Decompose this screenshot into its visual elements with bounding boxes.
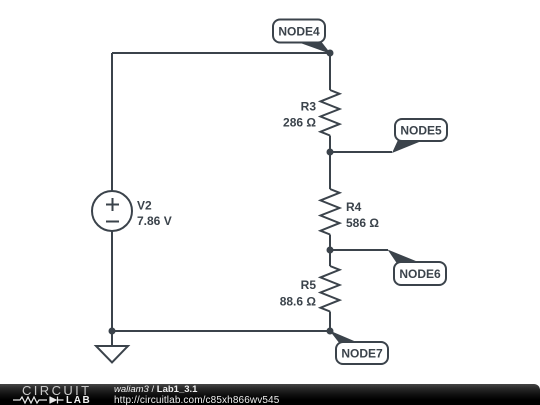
junction dot node NODE5 — [327, 149, 334, 156]
wire bottom from ground node to NODE7 — [112, 330, 330, 332]
svg-text:7.86 V: 7.86 V — [137, 214, 172, 228]
wire stub from NODE5 junction to NODE5 label — [330, 151, 392, 153]
svg-text:NODE6: NODE6 — [399, 267, 441, 281]
junction dot node NODE6 — [327, 247, 334, 254]
V2 minus sign — [106, 221, 119, 223]
footer url — [114, 395, 279, 405]
wire top from V2 to NODE4 — [112, 52, 330, 54]
svg-text:R5: R5 — [301, 278, 317, 292]
wire from R3 bottom to NODE5 junction — [329, 136, 331, 153]
wire from NODE5 junction down to R4 top — [329, 152, 331, 189]
node label NODE5 — [392, 119, 447, 153]
CircuitLab logo LAB — [66, 395, 91, 405]
node label NODE4 — [273, 20, 331, 55]
svg-text:NODE7: NODE7 — [341, 347, 383, 361]
svg-text:NODE4: NODE4 — [278, 25, 320, 39]
voltage source V2 circle — [92, 191, 132, 231]
junction dot node NODE7 — [327, 328, 334, 335]
CircuitLab logo wire with resistor and diode — [13, 395, 65, 405]
resistor R3 zigzag — [321, 90, 340, 136]
svg-text:88.6 Ω: 88.6 Ω — [280, 295, 317, 309]
footer bar — [0, 384, 540, 405]
wire from R5 bottom to NODE7 node — [329, 312, 331, 332]
footer author / title — [114, 384, 197, 395]
svg-text:286 Ω: 286 Ω — [283, 116, 316, 130]
wire from NODE4 down to R3 top — [329, 53, 331, 90]
svg-text:NODE5: NODE5 — [400, 124, 442, 138]
V2 plus sign — [106, 198, 119, 211]
resistor R4 zigzag — [321, 189, 340, 235]
node label NODE7 — [330, 331, 389, 365]
node label NODE6 — [388, 250, 447, 286]
svg-text:R4: R4 — [346, 200, 362, 214]
CircuitLab logo CIRCUIT — [22, 383, 92, 398]
svg-text:586 Ω: 586 Ω — [346, 216, 379, 230]
ground symbol — [96, 331, 128, 363]
wire stub from NODE6 junction to NODE6 label — [330, 249, 388, 251]
svg-text:V2: V2 — [137, 199, 152, 213]
junction dot ground node — [109, 328, 116, 335]
wire from NODE6 junction down to R5 top — [329, 250, 331, 266]
junction dot node NODE4 — [327, 50, 334, 57]
wire left from top corner to V2 positive terminal — [111, 53, 113, 191]
wire left from V2 negative terminal to ground node — [111, 231, 113, 331]
wire from R4 bottom to NODE6 junction — [329, 235, 331, 251]
resistor R5 zigzag — [321, 266, 340, 312]
svg-text:R3: R3 — [301, 100, 317, 114]
